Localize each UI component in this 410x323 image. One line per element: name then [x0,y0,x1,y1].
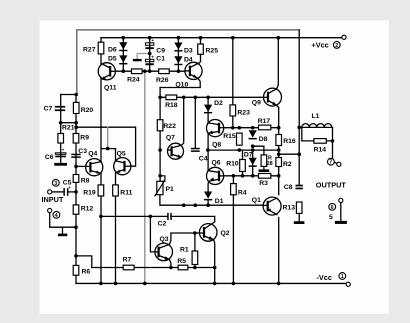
resistor R22 [157,120,163,131]
svg-text:R13: R13 [283,204,296,211]
wire C4 column [194,97,196,148]
wire input to C5 [52,191,63,193]
svg-text:R20: R20 [81,107,94,114]
potentiometer P1 [157,181,163,194]
node dots Q7 base P1 [158,148,162,152]
svg-text:Q6: Q6 [212,159,221,166]
wire R14 parallel loop [302,127,333,140]
svg-text:-Vcc: -Vcc [317,273,332,282]
node dot R14 right [331,139,335,143]
wire R28 ground stem [263,166,265,169]
terminal circled 7 [328,158,335,165]
node dot D8 R28 [251,144,255,148]
diode D3 [174,43,182,50]
svg-text:+: + [151,55,154,60]
wire R18 Q9 base [160,96,264,98]
wire Q9 collector drop [277,38,279,89]
node dot Q2 base [193,231,197,235]
terminal circled 2 [333,42,340,49]
terminal circled 6 [329,203,336,210]
wire Q1 emitter to rail [278,218,280,284]
wire terminal 6 ground [340,203,342,221]
resistor R24 [132,69,143,74]
capacitor C7 [55,106,65,108]
svg-text:R7: R7 [123,257,132,264]
ground bar at terminal 6 [335,221,347,224]
resistor R21 [58,134,64,144]
svg-text:+: + [62,148,65,153]
ground bar at input [58,234,67,237]
wire column R27 Q11 Q4 R19 [100,38,102,284]
terminal pin 6 [339,198,343,202]
wire D2 column [207,97,209,123]
svg-text:+: + [152,38,155,43]
resistor R16 [276,135,282,146]
wire bias row 2 [208,149,279,151]
diode D2 [204,105,212,112]
transistor Q4 [86,159,103,176]
svg-text:Q11: Q11 [104,84,117,91]
wire D8 to R28 branch [253,146,264,155]
wire output terminal drop [333,127,337,163]
wire R10 stem [242,150,244,176]
node dots R21 R9 [59,121,63,125]
resistor R12 [73,205,79,214]
svg-text:C7: C7 [44,106,53,113]
svg-text:C4: C4 [199,156,208,163]
node dots input column [74,165,78,169]
terminal pin input 3 [48,190,52,194]
svg-text:D8: D8 [259,136,268,143]
wire R25 column [198,38,201,65]
svg-text:D2: D2 [214,100,223,107]
terminal circled 3 [52,179,59,186]
svg-text:Q4: Q4 [88,150,97,157]
svg-text:D4: D4 [184,56,193,63]
transistor Q10 [185,62,202,79]
node dots emitter row y267 [169,266,173,270]
resistor R8 [73,175,79,183]
diode D5 [119,55,127,62]
svg-text:R27: R27 [83,47,96,54]
wire L1 node row [299,126,332,128]
svg-text:C3: C3 [78,148,87,155]
svg-text:R19: R19 [83,190,96,197]
wire Q10 emitter jog [160,78,200,88]
resistor R19 [98,185,104,196]
svg-text:C6: C6 [45,154,54,161]
node dots bias row y127 [231,126,235,130]
resistor R7 [123,265,134,270]
wire D1 bottom [207,200,209,205]
svg-text:R8: R8 [81,178,90,185]
node dot C9 C1 midpoint [148,52,152,56]
wire +Vcc rail [101,37,342,39]
resistor R15 [237,133,243,145]
node dots output jumper [277,152,281,156]
node dot feedback R20 [74,93,78,97]
svg-text:3: 3 [54,181,57,187]
resistor R23 [230,105,236,116]
capacitor C9 [145,43,153,46]
resistor R5 [178,265,188,270]
resistor R1 [192,251,198,265]
node dots row y205 [182,203,186,207]
diode D6 [119,42,127,49]
wire Q3 collector to Q2 base [170,233,195,244]
terminal pin input 4 [48,208,52,212]
wire C5 to base node [68,191,76,193]
ground bar at C1 [133,59,142,61]
resistor R11 [113,185,119,196]
node dots row y175 [232,174,236,178]
wire C2 to Q2 collector [171,216,215,221]
wire R6 top jog to R7 [76,256,92,268]
resistor R4 [231,184,237,195]
svg-text:R1: R1 [180,247,189,254]
svg-text:R26: R26 [156,77,169,84]
transistor Q2 [199,224,217,242]
wire Q7 collector [181,97,183,145]
diode D7 [249,158,257,165]
resistor R27 [98,42,104,54]
svg-text:D3: D3 [184,48,193,55]
terminal pin output 7 [337,162,341,166]
node dots bias row y150 [206,148,210,152]
svg-text:C2: C2 [158,220,167,227]
wire D3 D4 column [177,38,179,71]
wire node A drop [107,127,109,148]
svg-text:Q10: Q10 [175,81,188,88]
transistor Q3 [155,243,173,261]
svg-text:C5: C5 [63,180,72,187]
wire C7 R20 top stub [61,94,76,96]
wire D7 column [252,150,254,176]
transistor Q7 [168,143,184,159]
svg-text:R22: R22 [163,123,176,130]
svg-text:R23: R23 [237,110,250,117]
svg-text:7: 7 [329,160,332,166]
wire column R20 R9 C3 R8 R12 R6 [75,95,77,284]
svg-text:R9: R9 [80,135,89,142]
resistor R18 [166,95,177,100]
svg-text:4: 4 [55,213,58,219]
svg-text:D7: D7 [244,152,253,159]
svg-text:Q9: Q9 [252,100,261,107]
terminal pin -Vcc [346,282,350,286]
node dots feedback row y216 [99,215,103,219]
wire input ground 4 [50,213,76,228]
svg-text:R10: R10 [226,161,239,168]
resistor R6 [73,265,79,275]
wire R22 R18 junction column P1 [159,88,161,195]
svg-text:+Vcc: +Vcc [312,40,329,49]
wire C9 C1 column [149,38,151,71]
svg-text:Q5: Q5 [117,150,126,157]
svg-text:D6: D6 [108,46,117,53]
diode D8 [249,130,257,137]
wire Q3 base drop [150,216,155,252]
svg-text:R25: R25 [206,48,219,55]
node dots -Vcc rail [99,282,103,286]
svg-text:INPUT: INPUT [42,195,64,204]
wire R1 column [194,233,196,268]
wire input ground stem [62,227,64,233]
svg-text:R12: R12 [81,206,94,213]
transistor Q11 [98,63,115,80]
wire node A to Q5 base [76,127,135,166]
svg-text:R16: R16 [283,138,296,145]
wire Q6 base row R3 [224,175,279,177]
resistor R10 [240,160,246,172]
svg-text:R24: R24 [127,77,140,84]
svg-text:OUTPUT: OUTPUT [316,181,347,190]
svg-text:28: 28 [267,161,273,167]
svg-text:R15: R15 [223,133,236,140]
capacitor C3 [71,154,80,156]
wire C6 ground bar [54,163,67,166]
resistor R26 [159,69,170,74]
node dots bias row y71 [122,69,126,73]
svg-text:P1: P1 [166,186,175,193]
wire -Vcc rail [76,282,348,284]
transistor Q8 [207,120,224,137]
svg-text:R2: R2 [283,161,292,168]
wire output column to C8 R13 [298,30,300,185]
svg-text:Q3: Q3 [160,236,169,243]
svg-text:C1: C1 [156,56,165,63]
svg-text:R17: R17 [258,118,271,125]
svg-text:Q2: Q2 [221,230,230,237]
wire bias gray drop to -Vcc [144,71,146,283]
resistor R3 [259,174,271,179]
ground bar at R13 C8 [294,221,305,224]
svg-text:Q1: Q1 [252,197,261,204]
wire R23 column [232,38,234,128]
svg-text:R14: R14 [314,147,327,154]
wire output jumper row [279,153,300,155]
wire Q6 emitter to D1 [207,181,210,191]
wire Q3 emitter drop [170,260,171,268]
resistor R17 [259,125,271,130]
wire feedback rail top (output to input stage) [77,30,299,95]
resistor R9 [73,134,79,144]
wire C9 C1 midpoint ground stub [137,54,150,59]
svg-text:R6: R6 [82,269,91,276]
wire Q2 emitter to rail [214,240,215,284]
capacitor C6 [55,153,66,155]
node dot A drop [106,147,110,151]
wire feedback row to C2 [101,215,167,217]
wire R13 ground stem [298,213,300,221]
wire R4 column [232,176,234,284]
node dots wire y97 [158,96,162,100]
resistor R13 [296,202,302,213]
svg-text:R5: R5 [177,258,186,265]
resistor R25 [198,44,204,54]
svg-text:R21: R21 [62,125,75,132]
svg-text:2: 2 [335,43,338,49]
wire Q2 base [195,232,200,234]
terminal circled 4 [53,211,60,218]
wire column Q5 R11 [115,149,117,284]
svg-text:Q8: Q8 [212,142,221,149]
svg-text:1: 1 [341,274,344,280]
svg-text:C8: C8 [284,184,293,191]
svg-text:R18: R18 [165,102,178,109]
svg-text:R4: R4 [238,190,247,197]
terminal circled 1 [339,273,346,280]
svg-text:R11: R11 [120,190,132,197]
resistor R20 [73,102,79,113]
wire Q8 base bias row [224,127,279,129]
wire P1 bottom row to Q1 base [160,195,263,206]
resistor R2 [276,158,282,167]
wire Q4 base [76,165,86,167]
wire Q11 base R24 R26 Q10 base [115,70,185,72]
wire Q9 emitter R16 R2 column [277,105,279,194]
terminal pin +Vcc [342,35,346,39]
svg-text:L1: L1 [312,113,320,120]
capacitor C2 [167,213,169,220]
capacitor C1 [145,59,153,61]
capacitor C5 [63,188,65,196]
node dots Vcc rail [122,36,126,40]
resistor R28 [261,155,267,167]
capacitor C8 [296,185,303,187]
wire D6 D5 column [122,38,124,71]
ground bar at R28 [259,169,270,172]
diode D4 [174,56,182,63]
transistor Q6 [207,167,224,184]
svg-text:Q7: Q7 [166,134,175,141]
wire left column C7 R21 C6 [60,95,62,163]
wire bottom emitter row R7 R5 [92,267,215,269]
svg-text:D1: D1 [215,198,224,205]
transistor Q1 [263,197,281,215]
diode D1 [204,192,212,199]
svg-text:R3: R3 [259,180,268,187]
svg-text:D5: D5 [108,55,117,62]
transistor Q5 [114,158,131,175]
wire Q4 Q5 top link [101,148,116,150]
svg-text:6: 6 [331,205,334,211]
panel [40,20,390,314]
transistor Q9 [264,88,282,106]
svg-text:5: 5 [329,214,333,221]
inductor L1 [302,124,332,128]
resistor R14 [314,139,326,144]
svg-text:C9: C9 [156,48,165,55]
wire C7 R20 bottoms link [61,122,76,124]
wire Q8 emitter to Q6 collector column [207,133,209,171]
capacitor C4 [191,148,200,150]
